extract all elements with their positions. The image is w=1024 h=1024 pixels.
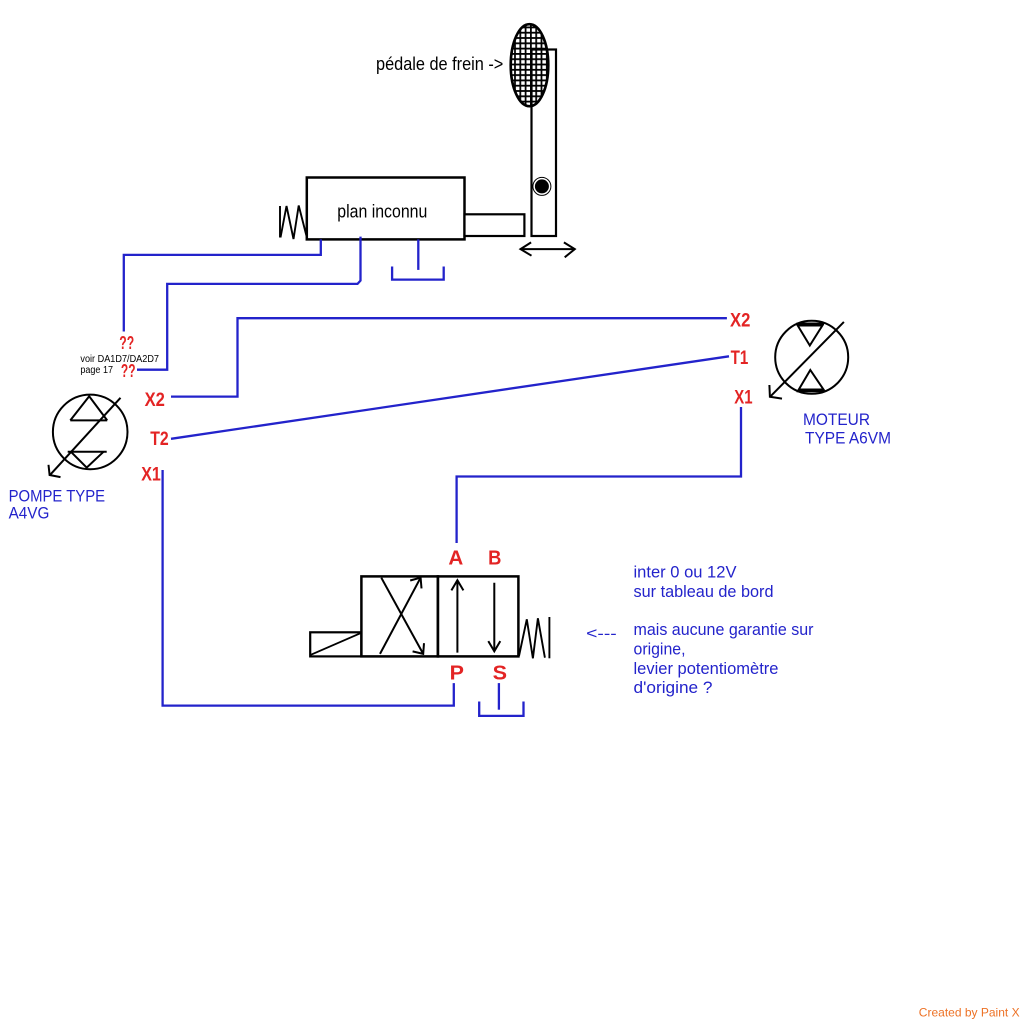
tank under box: [392, 239, 444, 279]
svg-text:A4VG: A4VG: [9, 504, 50, 523]
svg-text:??: ??: [119, 332, 134, 353]
svg-text:TYPE A6VM: TYPE A6VM: [805, 429, 891, 448]
tank under S: [479, 683, 523, 716]
straight arrows right cell: [451, 580, 500, 652]
spring left of box: [280, 206, 307, 240]
svg-text:X2: X2: [730, 310, 750, 331]
svg-text:levier potentiomètre: levier potentiomètre: [634, 659, 779, 678]
svg-text:origine,: origine,: [634, 640, 686, 659]
svg-text:sur tableau de bord: sur tableau de bord: [634, 582, 774, 601]
solenoid box: [310, 632, 361, 656]
svg-text:X2: X2: [145, 390, 165, 411]
wire X1 pump to P: [163, 470, 454, 706]
svg-text:<---: <---: [586, 626, 617, 643]
crossed arrows left cell: [380, 578, 424, 654]
wire port1 to ??: [124, 239, 321, 331]
pedal lever bar: [532, 50, 557, 237]
svg-text:S: S: [493, 663, 507, 685]
svg-text:inter 0 ou 12V: inter 0 ou 12V: [634, 563, 738, 582]
svg-text:P: P: [450, 663, 464, 685]
svg-text:A: A: [448, 548, 463, 570]
svg-text:??: ??: [121, 360, 136, 381]
svg-text:MOTEUR: MOTEUR: [803, 410, 870, 429]
svg-text:mais aucune garantie sur: mais aucune garantie sur: [634, 620, 814, 639]
piston rod: [465, 214, 525, 236]
double arrow (pedal travel): [521, 242, 575, 257]
valve spring: [519, 617, 549, 658]
valve body right cell: [438, 576, 519, 656]
svg-text:voir DA1D7/DA2D7: voir DA1D7/DA2D7: [80, 354, 159, 365]
svg-text:plan inconnu: plan inconnu: [337, 202, 427, 222]
svg-text:X1: X1: [734, 388, 753, 409]
pivot dot: [535, 179, 549, 193]
svg-text:Created by Paint X: Created by Paint X: [919, 1006, 1020, 1020]
svg-text:X1: X1: [141, 465, 161, 486]
pedal pad (hatched ellipse): [511, 24, 549, 106]
wire X1 motor to valve A: [457, 407, 741, 543]
svg-text:page 17: page 17: [80, 365, 113, 376]
motor symbol: [769, 321, 848, 399]
svg-text:B: B: [488, 548, 501, 570]
wire T2 to T1: [171, 356, 729, 439]
pump symbol: [49, 395, 128, 478]
svg-text:d'origine ?: d'origine ?: [634, 678, 713, 697]
svg-text:T1: T1: [731, 348, 749, 369]
wire port2 to ??: [137, 237, 361, 370]
master cylinder box plan inconnu: [307, 178, 465, 240]
wire X2 pump to X2 motor: [171, 318, 727, 396]
svg-text:pédale de frein ->: pédale de frein ->: [376, 54, 503, 74]
valve body left cell: [361, 576, 438, 656]
svg-text:T2: T2: [150, 429, 169, 450]
